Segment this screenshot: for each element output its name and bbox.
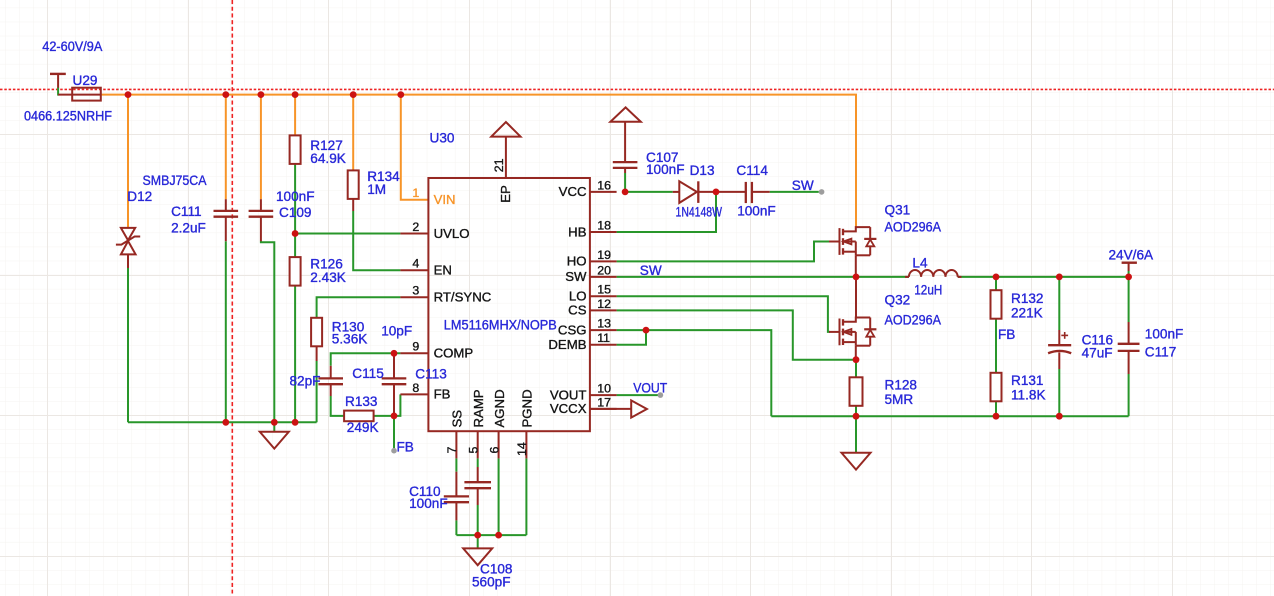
wire LO pin 15 to Q32 gate [617,296,830,332]
junction bottom rail/RAMP [474,532,481,539]
junction rail/R126 [292,419,299,426]
svg-text:20: 20 [597,263,611,277]
output terminal 24V [1122,262,1137,264]
junction SW node [853,274,860,281]
svg-text:100nF: 100nF [276,189,315,204]
svg-text:U29: U29 [73,73,98,88]
svg-text:3: 3 [412,284,419,298]
junction bus/C109 [258,91,265,98]
junction UVLO node [292,230,299,237]
svg-text:11: 11 [597,331,610,345]
wire C111 to ground rail [225,241,227,422]
wire SS pin to C110 [455,458,457,471]
resistor R131 [991,373,1002,402]
wire C114 to SW net stub [770,191,819,193]
svg-text:R128: R128 [885,378,918,393]
ground symbol right [842,453,871,470]
svg-text:Q31: Q31 [885,203,911,218]
svg-text:14: 14 [515,442,529,456]
fuse U29 [58,94,101,96]
junction bus/C111 [222,91,229,98]
node FB open end [391,448,397,454]
svg-text:5: 5 [466,447,480,454]
wire D12 to ground rail [127,268,129,422]
junction bus/VIN [397,91,404,98]
capacitor C109 [249,210,274,212]
diode D13 [673,191,680,193]
wire shunt node to R128 [855,360,857,378]
capacitor C111 [214,210,239,212]
wire bus drop to R127 (orange) [294,95,296,136]
svg-text:RT/SYNC: RT/SYNC [434,290,492,305]
wire ground rail to GND symbol [273,422,275,432]
wire R132 to R131 (FB divider) [995,319,997,373]
svg-text:6: 6 [487,447,501,454]
capacitor C113 [382,377,407,379]
svg-text:100nF: 100nF [737,204,776,219]
wire R133 to FB node [374,415,394,417]
resistor R127 [290,135,301,164]
wire VIN bus (orange) [101,95,856,228]
svg-text:EN: EN [434,263,452,278]
wire VIN pin 1 (orange) [401,95,429,200]
wire output rail to R132 [995,277,997,290]
junction rail/R131 [993,413,1000,420]
resistor R134 [348,170,359,199]
svg-text:221K: 221K [1011,305,1043,320]
capacitor C110 [444,495,469,497]
svg-text:42-60V/9A: 42-60V/9A [42,39,103,54]
resistor R130 [311,318,322,347]
wire bus drop to C111 (orange) [225,95,227,200]
junction CSG/DEMB [643,327,650,334]
svg-text:VOUT: VOUT [633,380,667,395]
svg-text:CSG: CSG [558,322,587,337]
wire bus drop to R134 (orange) [352,95,354,171]
transistor Q31 [829,241,840,243]
wire CSG pin 13 to ground rail [617,330,772,416]
svg-text:VIN: VIN [434,192,456,207]
junction rail/GND [271,419,278,426]
svg-text:16: 16 [597,178,611,192]
junction bottom rail/AGND [495,532,502,539]
resistor R126 [290,257,301,286]
ground symbol bottom [463,548,492,565]
svg-text:D13: D13 [690,163,715,178]
junction rail/R128 [853,413,860,420]
junction bus/R127 [292,91,299,98]
svg-text:UVLO: UVLO [434,226,470,241]
U30 pin names and numbers [412,158,611,456]
horizontal red dotted crosshair line [0,88,1274,90]
wire ground rail to GND symbol right [855,416,857,453]
wire FB node to FB net stub [393,416,395,448]
svg-text:FB: FB [434,387,451,402]
svg-text:R131: R131 [1011,373,1044,388]
svg-text:21: 21 [492,158,506,172]
svg-text:1: 1 [412,186,419,200]
svg-text:11.8K: 11.8K [1011,387,1046,402]
wire COMP pin 9 to C115 branch [331,353,401,366]
svg-text:24V/6A: 24V/6A [1109,248,1155,263]
svg-text:HB: HB [568,224,587,239]
svg-text:15: 15 [597,283,611,297]
VCCX arrow symbol [590,408,631,410]
svg-text:560pF: 560pF [472,575,511,590]
svg-text:9: 9 [412,340,419,354]
inductor L4 [905,276,909,278]
svg-text:12uH: 12uH [914,282,942,297]
wire SW pin 20 to SW node [617,276,856,278]
svg-text:13: 13 [597,317,611,331]
svg-text:19: 19 [597,248,611,262]
junction D13/C114/HB [713,189,720,196]
wire C109 to ground rail [261,241,274,422]
power symbol above EP [491,122,520,137]
resistor R128 [850,377,863,406]
wire C108 to bottom rail [477,505,479,535]
svg-text:100nF: 100nF [409,496,448,511]
junction bus/D12 [125,91,132,98]
svg-text:HO: HO [567,254,587,269]
capacitor C114 [745,182,747,203]
svg-text:LM5116MHX/NOPB: LM5116MHX/NOPB [444,317,557,332]
wire L4 to output rail [958,276,1129,278]
wire bus drop to C109 (orange) [260,95,262,200]
input terminal 42-60V [50,73,66,75]
wire AGND pin to bottom rail [498,458,500,535]
svg-text:249K: 249K [347,420,379,435]
svg-text:VCCX: VCCX [550,401,587,416]
junction output/C117 [1125,274,1132,281]
svg-text:COMP: COMP [434,346,474,361]
wire HO pin 19 to Q31 gate [617,242,829,262]
svg-text:100nF: 100nF [646,162,685,177]
svg-text:2: 2 [412,220,419,234]
wire right ground rail [771,415,1128,417]
svg-text:C111: C111 [171,204,201,219]
junction bus/R134 [350,91,357,98]
wire FB pin 8 to FB node [394,394,400,416]
power symbol above C107 [610,107,640,121]
svg-text:Q32: Q32 [885,292,911,307]
svg-text:R133: R133 [345,394,378,409]
svg-text:PGND: PGND [520,389,535,427]
svg-text:C109: C109 [279,205,312,220]
node SW open end [819,189,825,195]
wire terminal to fuse [57,88,59,96]
svg-text:C115: C115 [352,366,384,381]
resistor R133 [344,411,374,422]
wire bus drop to D12 (orange) [127,95,129,229]
wire C116 to ground rail [1058,369,1060,416]
svg-text:12: 12 [597,297,611,311]
svg-text:AGND: AGND [492,389,507,427]
wire R134 to EN pin 4 [353,211,400,270]
svg-text:CS: CS [568,303,587,318]
svg-text:AOD296A: AOD296A [885,220,942,235]
junction CS/R128 [853,356,860,363]
wire C107 to VCC node [624,173,626,192]
wire bottom rail to GND symbol [477,535,479,548]
junction rail/C111 [222,419,229,426]
wire 24V terminal to output rail [1128,271,1130,277]
svg-text:10: 10 [597,382,611,396]
junction rail/C116 [1056,413,1063,420]
wire output rail to C117 [1128,277,1130,322]
U30 pin stubs [400,233,428,235]
op-amp U30 body (LM5116) [428,178,590,431]
wire UVLO node to pin 2 [295,233,400,235]
svg-text:U30: U30 [430,130,455,145]
svg-text:FB: FB [397,440,414,455]
svg-text:C114: C114 [736,163,768,178]
wire UVLO node to R126 [294,234,296,258]
wire HB pin 18 [617,194,716,232]
svg-text:1M: 1M [367,182,386,197]
transistor Q32 [829,331,840,333]
svg-text:AOD296A: AOD296A [885,312,942,327]
svg-text:RAMP: RAMP [471,389,486,427]
svg-text:SMBJ75CA: SMBJ75CA [143,173,208,188]
svg-text:17: 17 [597,395,611,409]
svg-text:C117: C117 [1145,345,1177,360]
wire RAMP pin to C108 [477,458,479,467]
svg-text:0466.125NRHF: 0466.125NRHF [24,109,112,124]
capacitor C117 [1118,343,1140,345]
svg-text:SW: SW [565,269,587,284]
svg-text:SW: SW [640,263,662,278]
svg-text:D12: D12 [127,189,152,204]
wire CS pin 12 to shunt node [617,310,856,359]
node VOUT open end [658,392,664,398]
junction output/C116 [1056,274,1063,281]
svg-text:R132: R132 [1011,291,1044,306]
wire VCC pin 16 to D13 [622,191,673,193]
junction COMP node [391,350,398,357]
svg-text:4: 4 [412,257,419,271]
svg-text:FB: FB [998,327,1015,342]
junction output/R132 [993,274,1000,281]
capacitor C107 [613,161,638,163]
svg-text:2.43K: 2.43K [310,270,346,285]
svg-text:5.36K: 5.36K [332,332,368,347]
resistor R132 [991,290,1002,319]
wire R126 to ground rail [294,286,296,423]
wire C110 to bottom rail [455,520,457,535]
svg-text:64.9K: 64.9K [310,151,346,166]
vertical red dashed crosshair line [231,0,233,594]
svg-text:SW: SW [792,178,814,193]
wire R130 to ground rail [316,361,318,422]
svg-text:DEMB: DEMB [548,337,586,352]
svg-text:82pF: 82pF [290,373,321,388]
wire IC bottom ground rail [456,534,526,536]
wire C115 to R133 [331,396,344,416]
svg-text:47uF: 47uF [1082,346,1113,361]
wire DEMB pin 11 to CSG node [617,330,646,345]
wire output rail to C116 [1058,277,1060,330]
wire R131 to ground rail [995,401,997,416]
junction FB node [391,413,398,420]
svg-text:5MR: 5MR [885,392,914,407]
svg-text:18: 18 [597,218,611,232]
wire VOUT pin 10 [617,394,658,396]
capacitor C108 [464,481,491,483]
svg-text:100nF: 100nF [1145,327,1184,342]
wire left ground rail [128,421,317,423]
svg-text:1N4148W: 1N4148W [676,204,723,219]
svg-text:VCC: VCC [559,184,587,199]
svg-text:7: 7 [445,447,459,454]
svg-text:10pF: 10pF [381,324,412,339]
svg-text:L4: L4 [912,255,928,270]
wire R128 to ground rail [855,406,857,416]
svg-text:SS: SS [450,410,465,428]
capacitor C116 (polarized) [1048,344,1071,346]
wire PGND pin to bottom rail [525,458,527,535]
wire SW node to L4 [856,276,909,278]
wire RT/SYNC pin 3 to R130 [317,297,401,318]
TVS diode D12 [121,228,135,240]
junction VCC/C107 [622,189,629,196]
svg-text:VOUT: VOUT [550,387,587,402]
svg-text:C113: C113 [415,367,447,382]
wire R127 to UVLO node [294,164,296,234]
ground symbol left [260,432,289,449]
wire C117 to ground rail [1128,374,1130,416]
svg-text:LO: LO [569,289,587,304]
svg-text:8: 8 [412,381,419,395]
svg-text:EP: EP [498,185,513,203]
capacitor C115 [318,377,343,379]
svg-text:2.2uF: 2.2uF [171,220,206,235]
